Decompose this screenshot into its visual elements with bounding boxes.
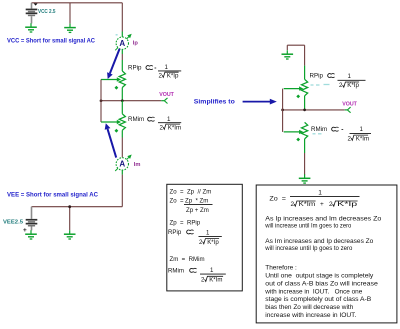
label Im <box>134 162 141 168</box>
text as Ip increases <box>264 215 381 229</box>
wire to VEE ground <box>68 205 71 230</box>
svg-text:K*Im: K*Im <box>209 277 222 284</box>
svg-text:K*Ip: K*Ip <box>167 72 179 79</box>
label VCC 2.5 <box>38 9 56 15</box>
svg-text:RMim: RMim <box>128 116 144 123</box>
svg-text:Im: Im <box>134 162 141 168</box>
label RPip formula <box>128 64 181 79</box>
svg-text:RPip: RPip <box>128 65 142 72</box>
svg-text:RMim: RMim <box>168 267 184 274</box>
wiper arrow RPip <box>101 77 121 81</box>
wire RMim to ammeter <box>121 138 123 158</box>
node VOUT wire simplified <box>283 109 345 111</box>
svg-text:As Ip increases and Im decreas: As Ip increases and Im decreases Zo <box>265 215 381 222</box>
svg-text:RMim: RMim <box>311 126 327 133</box>
cyan tick <box>116 34 118 36</box>
svg-text:Zp + Zm: Zp + Zm <box>186 207 209 214</box>
svg-text:will increase until Im goes to: will increase until Im goes to zero <box>264 222 351 229</box>
battery V1 VCC2.5 <box>26 3 38 24</box>
svg-text:2: 2 <box>160 124 164 131</box>
svg-text:K*Im: K*Im <box>356 135 369 142</box>
wiper arrow RMim simplified <box>284 130 304 134</box>
svg-text:VCC 2.5: VCC 2.5 <box>38 9 56 15</box>
formula RMim prop <box>168 267 226 284</box>
textbox Zo parallel formulas <box>167 184 243 291</box>
wire wiper loop simplified <box>282 89 284 132</box>
svg-text:Zo =: Zo = <box>269 196 286 203</box>
junction VOUT center <box>121 99 124 102</box>
control arrow Im to RMim <box>105 123 117 157</box>
resistor RPip <box>119 60 125 101</box>
resistor RMim <box>119 101 125 138</box>
svg-text:+: + <box>320 201 324 208</box>
svg-text:Therefore :: Therefore : <box>265 264 297 271</box>
ammeter Ip meter <box>115 32 132 55</box>
formula Zo = Zp // Zm <box>170 189 212 196</box>
svg-text:K*Ip: K*Ip <box>347 82 359 89</box>
textbox Zo explanation <box>256 185 397 323</box>
formula Zp = RPip <box>170 219 201 226</box>
cyan value label RMim <box>313 133 322 135</box>
svg-text:RPip: RPip <box>310 73 324 80</box>
wire VEE bottom rail <box>32 175 123 207</box>
svg-text:2: 2 <box>159 72 163 79</box>
svg-text:Zm = RMim: Zm = RMim <box>170 256 205 263</box>
svg-text:K*Im: K*Im <box>168 124 181 131</box>
svg-text:2: 2 <box>329 201 333 208</box>
annotation VCC short <box>7 38 96 44</box>
svg-text:K*Ip: K*Ip <box>207 239 219 246</box>
svg-text:K*Im: K*Im <box>299 201 316 208</box>
svg-text:+: + <box>23 227 27 234</box>
svg-text:stage is completely out of cla: stage is completely out of class A-B <box>265 296 372 303</box>
wire VCC top rail <box>32 3 123 32</box>
svg-text:Zo =: Zo = <box>170 197 184 204</box>
pin VOUT open <box>161 98 167 104</box>
pin VOUT open simplified <box>345 107 351 113</box>
diamond marker RMim <box>115 129 119 133</box>
formula Zo total <box>269 189 359 208</box>
diamond marker RPip <box>115 86 119 90</box>
svg-text:A: A <box>119 160 125 169</box>
label plus <box>23 227 27 234</box>
svg-text:1: 1 <box>167 116 171 123</box>
wire RMim to ground simplified <box>304 153 306 175</box>
formula Zm = RMim <box>170 256 205 263</box>
svg-text:VCC = Short for small signal A: VCC = Short for small signal AC <box>7 38 96 44</box>
svg-text:1: 1 <box>348 73 352 80</box>
cyan value label RPip <box>311 84 330 87</box>
svg-text:As Im increases and Ip decreas: As Im increases and Ip decreases Zo <box>265 238 373 245</box>
label Ip <box>133 41 139 47</box>
svg-text:Until one output stage is com: Until one output stage is completely <box>265 272 374 279</box>
node VOUT wire <box>101 100 161 102</box>
label RMim formula <box>128 116 181 132</box>
svg-text:Zp * Zm: Zp * Zm <box>185 197 208 204</box>
ground below V2 <box>25 230 37 239</box>
text as Im increases <box>264 238 373 252</box>
ground below V1 <box>25 23 37 32</box>
svg-text:VEE = Short for small signal A: VEE = Short for small signal AC <box>7 192 99 198</box>
wiper arrow RPip simplified <box>284 86 304 90</box>
ammeter Im meter <box>115 155 132 175</box>
annotation simplifies to <box>194 99 235 106</box>
label VOUT simplified <box>342 101 357 107</box>
label VEE2.5 <box>3 219 23 225</box>
text therefore <box>264 264 378 319</box>
svg-text:2: 2 <box>348 135 352 142</box>
svg-text:out of class A-B bias Zo will: out of class A-B bias Zo will increase <box>265 280 378 287</box>
svg-text:VEE2.5: VEE2.5 <box>3 219 23 225</box>
annotation VEE short <box>7 192 99 198</box>
svg-text:increase with increase in IOUT: increase with increase in IOUT. <box>265 312 356 319</box>
svg-text:Simplifies to: Simplifies to <box>194 99 235 106</box>
label RPip formula simplified <box>310 73 366 90</box>
wire wiper loop <box>100 80 102 123</box>
formula RPip prop <box>168 229 222 246</box>
svg-text:will increase until Ip goes to: will increase until Ip goes to zero <box>264 245 352 252</box>
junction VOUT left <box>100 99 103 102</box>
svg-text:VOUT: VOUT <box>342 101 357 107</box>
svg-text:2: 2 <box>291 201 295 208</box>
control arrow Ip to RPip <box>107 49 120 79</box>
svg-text:1: 1 <box>360 126 364 133</box>
formula Zo fraction <box>170 197 213 214</box>
arrow simplifies to <box>243 99 277 105</box>
ground on VEE rail <box>64 230 76 239</box>
svg-text:1: 1 <box>318 189 322 196</box>
junction VOUT simplified center <box>303 109 306 112</box>
label VOUT <box>159 92 174 98</box>
resistor RMim simplified <box>302 122 308 153</box>
diamond marker RMim simplified <box>296 138 300 142</box>
label RMim formula simplified <box>311 126 371 142</box>
wire simplified top <box>287 45 304 65</box>
svg-text:with increase in IOUT. Once: with increase in IOUT. Once one <box>264 288 362 295</box>
svg-text:A: A <box>119 39 125 48</box>
wiper arrow RMim <box>101 120 121 124</box>
svg-text:2: 2 <box>339 82 343 89</box>
wire ammeter to RPip <box>121 54 123 60</box>
svg-text:VOUT: VOUT <box>159 92 174 98</box>
svg-text:Zo = Zp // Zm: Zo = Zp // Zm <box>170 189 212 196</box>
ground on VCC rail <box>64 24 76 33</box>
wire to AC ground <box>69 3 71 24</box>
diamond marker RPip simplified <box>296 95 300 99</box>
svg-text:Zp = RPip: Zp = RPip <box>170 219 201 226</box>
battery V2 VEE2.5 <box>26 207 38 231</box>
svg-text:1: 1 <box>165 64 169 71</box>
ground simplified top <box>282 50 294 59</box>
junction VOUT simplified left <box>281 109 284 112</box>
svg-text:RPip: RPip <box>168 229 182 236</box>
polarity marker triangle <box>34 3 38 5</box>
resistor RPip simplified <box>302 66 308 110</box>
ground simplified bottom <box>299 174 311 183</box>
svg-text:Ip: Ip <box>133 41 139 47</box>
svg-text:K*Ip: K*Ip <box>337 201 358 208</box>
svg-text:bias then Zo will decrease wit: bias then Zo will decrease with <box>265 304 353 311</box>
